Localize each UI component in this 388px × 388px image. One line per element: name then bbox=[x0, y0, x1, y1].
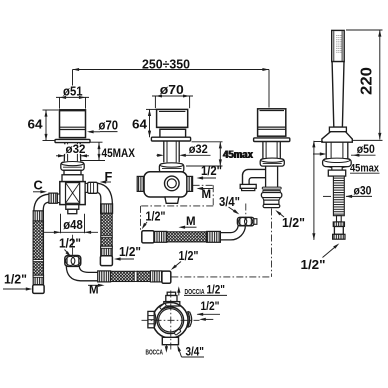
hose B end nut 1/2 bbox=[162, 271, 171, 283]
shower hose lower tube bbox=[337, 216, 342, 222]
hose C left nut 1/2 bbox=[142, 231, 154, 243]
label 1/2 spout tail bbox=[275, 210, 305, 230]
left valve body with cross bbox=[60, 182, 85, 205]
label M middle valve right bbox=[197, 187, 214, 201]
spout body tube bbox=[266, 166, 278, 188]
hose F-side elbow tube bbox=[98, 183, 113, 204]
label 1/2 right port bbox=[197, 299, 220, 321]
hose B braided section 1 bbox=[111, 271, 135, 281]
svg-text:ø50: ø50 bbox=[357, 142, 375, 156]
dim 64 middle handle bbox=[132, 109, 156, 137]
left valve left port nut C bbox=[49, 193, 60, 203]
hose C-side elbow tube bbox=[34, 194, 49, 211]
svg-text:DOCCIA: DOCCIA bbox=[185, 287, 205, 296]
svg-text:1/2": 1/2" bbox=[146, 209, 166, 223]
svg-text:1/2": 1/2" bbox=[207, 283, 226, 297]
left valve ring nut bbox=[61, 162, 84, 171]
svg-text:ø30: ø30 bbox=[354, 183, 372, 197]
svg-text:1/2": 1/2" bbox=[59, 237, 81, 251]
label C cold inlet bbox=[33, 177, 47, 193]
hand shower spray dots bbox=[336, 35, 341, 52]
hose F-side end nut 1/2 bbox=[100, 256, 112, 266]
3/4 swivel nut bbox=[237, 217, 257, 226]
hose F-side lower collar bbox=[101, 246, 113, 256]
label o30 shower hose bbox=[323, 183, 372, 198]
svg-text:ø70: ø70 bbox=[160, 83, 184, 97]
label o70 left flange bbox=[87, 119, 118, 134]
hose F-side collar bbox=[101, 204, 113, 213]
label 1/2 middle valve top right bbox=[197, 164, 223, 179]
left valve bottom outlet bbox=[66, 205, 79, 214]
dim 64 left handle height bbox=[28, 110, 59, 141]
svg-text:ø70: ø70 bbox=[99, 119, 119, 133]
middle valve ring nut bbox=[159, 163, 183, 172]
shower hose top block bbox=[328, 170, 345, 176]
shower hose neck bbox=[332, 167, 342, 171]
label M hose C bbox=[179, 216, 197, 229]
hose C-side end nut 1/2 bbox=[33, 285, 44, 294]
hose C-side collar bbox=[33, 211, 43, 221]
hose C left collar bbox=[154, 231, 167, 242]
svg-text:3/4": 3/4" bbox=[219, 195, 240, 209]
svg-text:45MAX: 45MAX bbox=[102, 147, 136, 160]
centerline middle valve to hose C bbox=[141, 185, 214, 230]
label 45max holder bbox=[350, 163, 380, 175]
dim 220 hand shower bbox=[346, 30, 383, 140]
shower corrugated hose bbox=[333, 176, 344, 216]
dim o51 left handle bbox=[56, 85, 89, 109]
diverter top port bbox=[164, 292, 180, 306]
svg-text:M: M bbox=[202, 189, 212, 201]
label DOCCIA 1/2 top port bbox=[177, 283, 227, 297]
elbow tube to horizontal hose bbox=[66, 266, 97, 280]
dim o70 middle handle bbox=[152, 83, 193, 108]
middle valve bottom outlet bbox=[165, 197, 179, 203]
dim 45MAX left bbox=[81, 142, 135, 160]
svg-text:ø32: ø32 bbox=[189, 142, 208, 156]
dim 45max middle bbox=[186, 142, 254, 166]
diverter body circles bbox=[153, 303, 189, 339]
svg-text:ø48: ø48 bbox=[63, 218, 83, 232]
hose C elbow tube to 3/4 nut bbox=[220, 225, 245, 240]
left valve right port nut F bbox=[85, 182, 97, 193]
right handle body bbox=[258, 109, 286, 136]
diverter bottom port bbox=[162, 337, 178, 344]
centerline hose B to spout tail bbox=[171, 276, 271, 278]
hose C braided section bbox=[167, 232, 207, 242]
diverter right port bbox=[188, 311, 192, 327]
left handle flange o70 bbox=[55, 139, 90, 142]
hose C-side lower collar bbox=[33, 275, 43, 285]
label 3/4 spout supply bbox=[219, 195, 240, 215]
dim o48 under left valve bbox=[44, 214, 98, 234]
shower holder cone flange bbox=[322, 132, 352, 143]
shower hose end fitting bbox=[333, 222, 345, 239]
svg-text:1/2": 1/2" bbox=[201, 299, 220, 313]
left valve stem bbox=[64, 143, 80, 162]
label 3/4 bottom port bbox=[177, 344, 204, 358]
svg-text:3/4": 3/4" bbox=[186, 344, 205, 358]
shower holder ring nut bbox=[323, 158, 352, 168]
svg-text:220: 220 bbox=[359, 67, 376, 95]
svg-text:1/2": 1/2" bbox=[119, 245, 141, 259]
svg-text:1/2": 1/2" bbox=[301, 258, 326, 272]
svg-text:64: 64 bbox=[28, 118, 43, 132]
hose B right collar bbox=[151, 271, 162, 282]
hose C right collar bbox=[207, 231, 221, 242]
spout tail coupling 1/2 bbox=[261, 187, 281, 207]
hose B middle band bbox=[134, 271, 137, 281]
left handle body bbox=[60, 110, 86, 138]
label F hot inlet bbox=[100, 169, 113, 184]
middle handle body bbox=[157, 109, 188, 137]
diverter crosshair centerlines bbox=[142, 291, 200, 351]
svg-text:C: C bbox=[34, 177, 43, 192]
left valve upper block bbox=[64, 170, 81, 175]
label 1/2 hose B end bbox=[171, 249, 199, 270]
label BOCCA bottom port bbox=[146, 345, 169, 357]
label 1/2 shower hose end bbox=[301, 243, 340, 271]
dim 250-350 between handle centers bbox=[73, 56, 270, 107]
centerline spout outlet to 3/4 nut bbox=[245, 204, 247, 217]
right handle flange bbox=[254, 138, 290, 142]
hand shower base step bbox=[329, 127, 346, 132]
middle valve cross body bbox=[137, 172, 192, 197]
svg-text:45max: 45max bbox=[223, 149, 254, 161]
hose B left collar bbox=[98, 271, 111, 282]
label 1/2 hose C left bbox=[142, 209, 166, 229]
svg-text:1/2": 1/2" bbox=[4, 273, 27, 287]
tub spout elbow bbox=[240, 169, 265, 190]
right valve ring nut bbox=[260, 158, 284, 166]
diverter left port bbox=[148, 311, 156, 327]
diverter tabs bbox=[160, 303, 181, 335]
svg-text:1/2": 1/2" bbox=[201, 164, 222, 178]
hand shower handle bbox=[332, 62, 344, 128]
svg-text:1/2": 1/2" bbox=[179, 249, 199, 263]
dim o32 left stem bbox=[56, 142, 89, 157]
middle valve stem bbox=[164, 141, 179, 162]
label 1/2 elbow nut bbox=[59, 237, 81, 257]
centerline valve outlet to elbow nut bbox=[72, 235, 74, 255]
hose C-side braided section bbox=[33, 221, 43, 275]
dim deck-to-hose right bbox=[312, 141, 323, 240]
dim o32 middle stem bbox=[157, 142, 211, 157]
label 1/2 left hose end bbox=[3, 273, 32, 291]
svg-text:64: 64 bbox=[132, 118, 147, 132]
svg-text:250÷350: 250÷350 bbox=[142, 56, 190, 71]
svg-text:M: M bbox=[89, 284, 99, 296]
label 1/2 F hose end bbox=[114, 245, 141, 260]
elbow swivel nut 1/2 bbox=[65, 255, 81, 266]
svg-text:BOCCA: BOCCA bbox=[146, 347, 164, 356]
hose B braided section 2 bbox=[137, 271, 150, 281]
middle handle flange bbox=[151, 137, 190, 141]
hose F-side braided section bbox=[101, 213, 112, 246]
hand shower head bbox=[332, 30, 345, 61]
shower holder socket bbox=[326, 142, 348, 159]
svg-text:1/2": 1/2" bbox=[282, 216, 305, 230]
svg-text:ø32: ø32 bbox=[66, 142, 86, 156]
label o50 holder flange bbox=[313, 142, 376, 157]
label M hose B bbox=[88, 284, 105, 297]
svg-text:M: M bbox=[186, 216, 196, 228]
right valve stem bbox=[263, 142, 280, 159]
